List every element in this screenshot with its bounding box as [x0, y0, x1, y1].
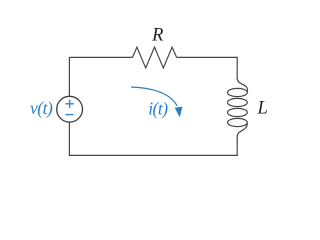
- svg-text:R: R: [151, 26, 163, 46]
- voltage source V1 plus sign: [65, 100, 73, 108]
- current arrow i(t) arc: [131, 87, 177, 106]
- svg-text:v(t): v(t): [30, 98, 53, 118]
- voltage source V1 minus sign: [66, 114, 74, 116]
- wire left vertical up from source to top-left corner: [68, 57, 70, 96]
- svg-text:i(t): i(t): [148, 99, 168, 119]
- current arrow i(t) arrowhead: [175, 107, 183, 118]
- svg-text:L: L: [257, 99, 268, 119]
- wire top-left horizontal (source to resistor): [69, 56, 132, 58]
- wire inductor to bottom-right corner: [236, 136, 238, 155]
- wire bottom-left vertical up to source: [68, 122, 70, 156]
- resistor R1 zigzag: [133, 47, 177, 68]
- inductor L1 coil: [228, 79, 248, 137]
- voltage source V1 circle: [57, 96, 83, 122]
- wire bottom horizontal: [69, 154, 238, 156]
- wire resistor to top-right corner: [177, 56, 238, 58]
- wire right vertical down to inductor: [236, 57, 238, 79]
